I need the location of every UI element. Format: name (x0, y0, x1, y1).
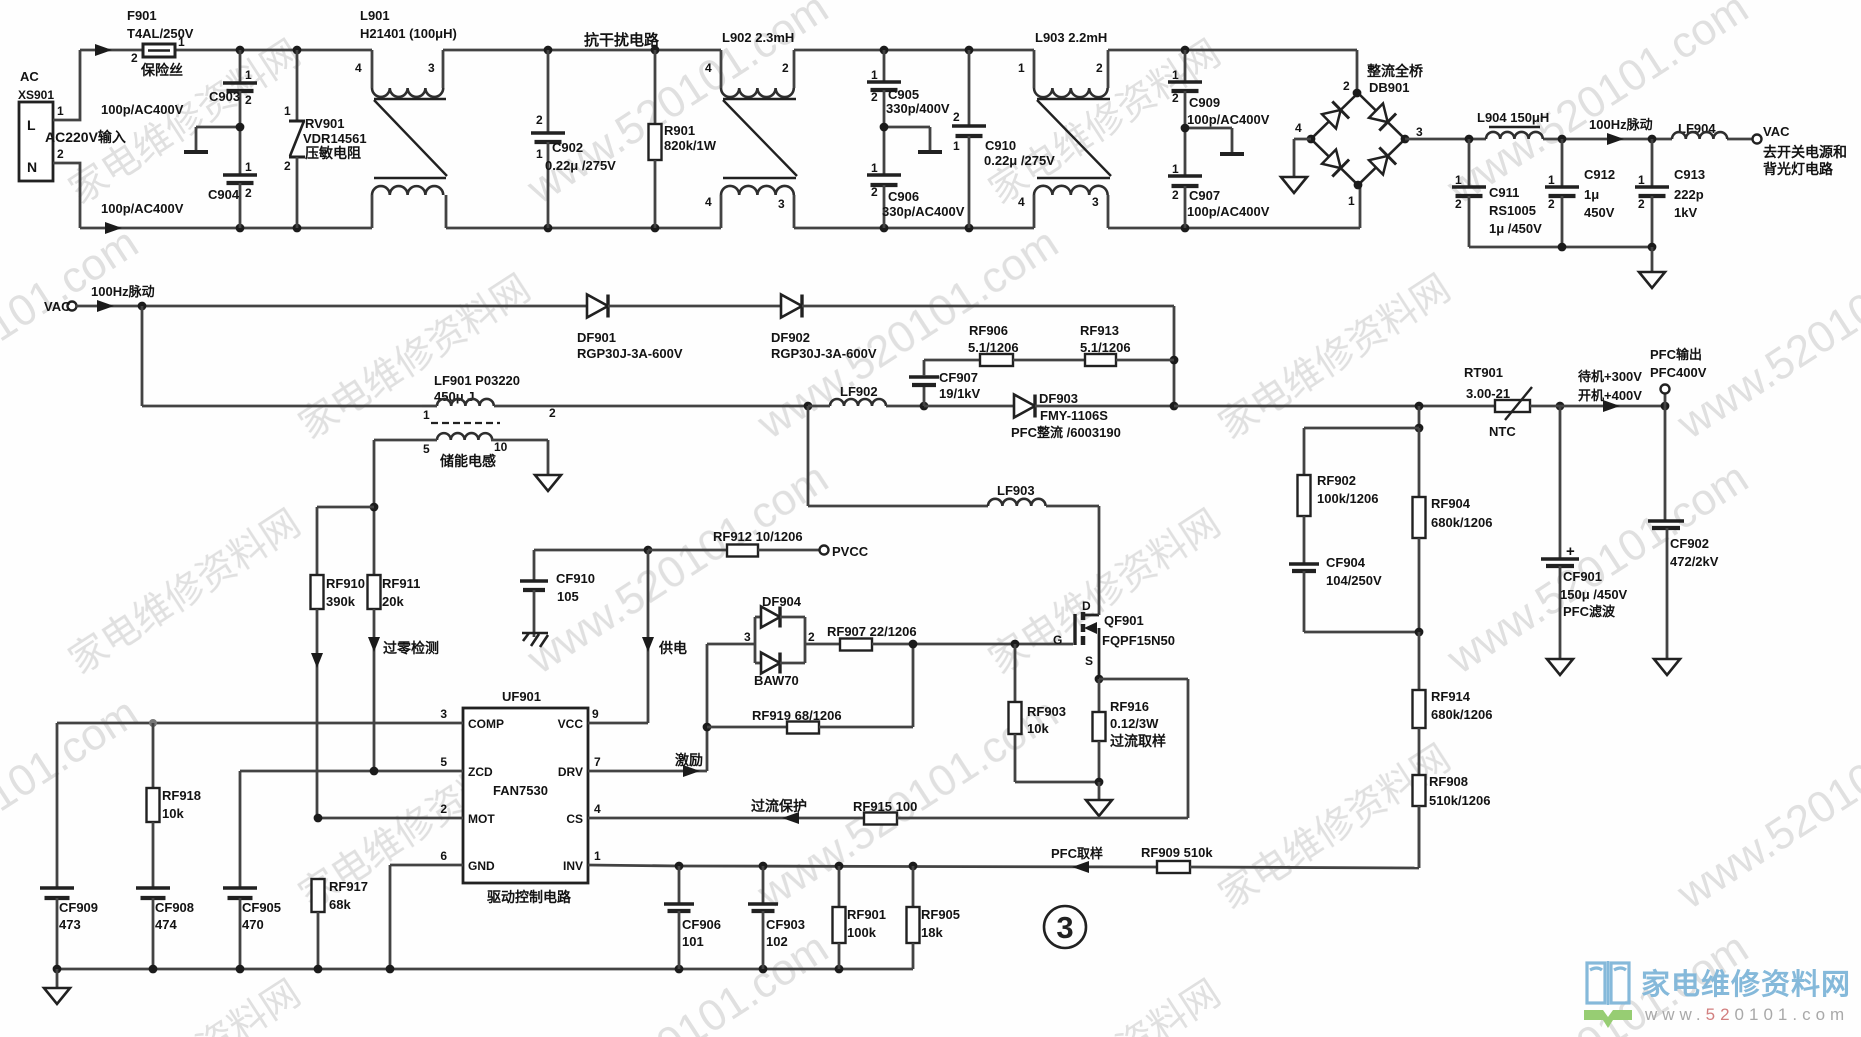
svg-text:1: 1 (1348, 194, 1355, 208)
svg-text:0.22μ /275V: 0.22μ /275V (984, 153, 1055, 168)
wire LF903 to QF901 drain (1098, 506, 1101, 614)
svg-text:102: 102 (766, 934, 788, 949)
capacitor CF908 (136, 888, 194, 969)
terminal VAC out (1753, 124, 1848, 177)
svg-text:F901: F901 (127, 8, 157, 23)
svg-text:待机+300V: 待机+300V (1577, 369, 1642, 384)
svg-text:CF909: CF909 (59, 900, 98, 915)
svg-text:5: 5 (423, 442, 430, 456)
diode DF903 (PFC rectifier) (924, 391, 1178, 440)
svg-text:820k/1W: 820k/1W (664, 138, 717, 153)
capacitor C911 (1452, 139, 1542, 247)
svg-text:LF901 P03220: LF901 P03220 (434, 373, 520, 388)
svg-text:2: 2 (536, 113, 543, 127)
wire GND net (pin6) (390, 865, 463, 969)
svg-text:RF905: RF905 (921, 907, 960, 922)
svg-text:1μ /450V: 1μ /450V (1489, 221, 1542, 236)
svg-text:1: 1 (871, 68, 878, 82)
wire RT901 to PFC output terminal (1530, 393, 1669, 412)
svg-text:2: 2 (245, 186, 252, 200)
resistor RF917 (312, 879, 369, 969)
common-mode choke L902 (705, 30, 797, 228)
wire XS901 pin2 to bottom rail (53, 163, 80, 228)
resistor RF902 (1298, 428, 1379, 563)
svg-text:抗干扰电路: 抗干扰电路 (584, 31, 660, 49)
resistor RF910 (311, 575, 366, 818)
inductor L904 (1477, 110, 1549, 139)
wire VAC down to PFC line (142, 306, 422, 406)
svg-text:3: 3 (744, 630, 751, 644)
label supply (658, 640, 687, 656)
svg-text:保险丝: 保险丝 (140, 62, 183, 78)
svg-text:2: 2 (1172, 188, 1179, 202)
svg-text:1: 1 (57, 104, 64, 118)
wire LF901 pin2 to LF902 (548, 402, 812, 411)
svg-text:CF901: CF901 (1563, 569, 1602, 584)
svg-text:L: L (27, 117, 36, 133)
svg-text:GND: GND (468, 859, 495, 873)
svg-text:3: 3 (1092, 195, 1099, 209)
svg-text:DF904: DF904 (762, 594, 802, 609)
svg-text:AC220V输入: AC220V输入 (45, 129, 126, 145)
svg-text:RGP30J-3A-600V: RGP30J-3A-600V (771, 346, 877, 361)
svg-text:680k/1206: 680k/1206 (1431, 707, 1492, 722)
svg-text:101: 101 (682, 934, 704, 949)
svg-text:DB901: DB901 (1369, 80, 1409, 95)
bridge rectifier DB901 (1295, 63, 1424, 208)
svg-text:PFC整流 /6003190: PFC整流 /6003190 (1011, 425, 1121, 440)
resistor RF913 (1080, 323, 1174, 366)
svg-text:C906: C906 (888, 189, 919, 204)
svg-text:RF918: RF918 (162, 788, 201, 803)
label AC220V input (45, 129, 126, 145)
wire XS901 pin1 to top rail (53, 50, 80, 120)
svg-text:PFC400V: PFC400V (1650, 365, 1707, 380)
svg-text:FQPF15N50: FQPF15N50 (1102, 633, 1175, 648)
svg-text:RF903: RF903 (1027, 704, 1066, 719)
svg-text:去开关电源和: 去开关电源和 (1763, 144, 1847, 160)
resistor RF918 (147, 723, 202, 887)
svg-text:供电: 供电 (658, 640, 687, 656)
svg-text:2: 2 (284, 159, 291, 173)
svg-text:CS: CS (566, 812, 583, 826)
svg-text:5.1/1206: 5.1/1206 (1080, 340, 1131, 355)
svg-text:N: N (27, 159, 37, 175)
svg-text:驱动控制电路: 驱动控制电路 (487, 889, 572, 905)
resistor RF906 (924, 323, 1085, 366)
svg-text:1: 1 (1548, 173, 1555, 187)
svg-text:3: 3 (778, 197, 785, 211)
svg-text:RF909 510k: RF909 510k (1141, 845, 1213, 860)
svg-text:www.520101.com: www.520101.com (1644, 1005, 1849, 1024)
ground (C903/C904 midpoint) (184, 127, 240, 152)
capacitor C903 (101, 50, 257, 127)
ground (CF902) (1654, 659, 1680, 675)
resistor RF916 (current sense) (1093, 679, 1167, 799)
svg-text:510k/1206: 510k/1206 (1429, 793, 1490, 808)
svg-text:2: 2 (57, 147, 64, 161)
svg-text:C904: C904 (208, 187, 240, 202)
svg-text:2: 2 (782, 61, 789, 75)
svg-text:2: 2 (1096, 61, 1103, 75)
svg-text:4: 4 (1018, 195, 1025, 209)
svg-text:100p/AC400V: 100p/AC400V (1187, 204, 1270, 219)
wire filter ground rail (1469, 243, 1656, 271)
svg-text:2: 2 (1455, 197, 1462, 211)
svg-text:C909: C909 (1189, 95, 1220, 110)
svg-text:1: 1 (423, 408, 430, 422)
svg-text:100k: 100k (847, 925, 877, 940)
svg-text:4: 4 (355, 61, 362, 75)
svg-text:QF901: QF901 (1104, 613, 1144, 628)
terminal PVCC (820, 544, 869, 559)
svg-text:2: 2 (953, 110, 960, 124)
svg-text:1: 1 (536, 147, 543, 161)
svg-text:1kV: 1kV (1674, 205, 1697, 220)
common-mode choke L903 (1018, 30, 1111, 228)
label zero-cross detect (383, 640, 439, 656)
resistor RF914 (1413, 632, 1493, 775)
capacitor C907 (1168, 124, 1270, 228)
capacitor CF910 (520, 550, 648, 637)
svg-text:2: 2 (1638, 197, 1645, 211)
svg-text:家电维修资料网: 家电维修资料网 (1641, 967, 1851, 1001)
svg-text:222p: 222p (1674, 187, 1704, 202)
svg-text:105: 105 (557, 589, 579, 604)
svg-text:3.00-21: 3.00-21 (1466, 386, 1510, 401)
wire divider mid rail (1304, 628, 1423, 637)
svg-text:330p/AC400V: 330p/AC400V (882, 204, 965, 219)
svg-text:1: 1 (871, 161, 878, 175)
svg-text:整流全桥: 整流全桥 (1366, 63, 1424, 79)
varistor RV901 (284, 50, 367, 228)
svg-text:CF905: CF905 (242, 900, 281, 915)
resistor R901 (649, 50, 717, 228)
svg-text:2: 2 (808, 630, 815, 644)
svg-text:0.12/3W: 0.12/3W (1110, 716, 1159, 731)
resistor RF903 (1009, 644, 1100, 782)
svg-text:RF901: RF901 (847, 907, 886, 922)
svg-text:FMY-1106S: FMY-1106S (1040, 408, 1108, 423)
MOSFET QF901 (1053, 599, 1175, 679)
svg-text:1: 1 (245, 68, 252, 82)
svg-text:DF902: DF902 (771, 330, 810, 345)
ground (output filter) (1639, 272, 1665, 288)
svg-text:DRV: DRV (558, 765, 583, 779)
svg-text:MOT: MOT (468, 812, 495, 826)
svg-text:C912: C912 (1584, 167, 1615, 182)
svg-text:150μ /450V: 150μ /450V (1560, 587, 1628, 602)
svg-text:AC: AC (20, 69, 39, 84)
svg-text:0.22μ /275V: 0.22μ /275V (545, 158, 616, 173)
capacitor CF906 (664, 866, 721, 969)
svg-text:压敏电阻: 压敏电阻 (305, 145, 361, 161)
inductor LF902 (808, 384, 928, 410)
resistor RF905 (907, 866, 961, 969)
svg-text:RF912 10/1206: RF912 10/1206 (713, 529, 803, 544)
svg-text:CF908: CF908 (155, 900, 194, 915)
svg-text:390k: 390k (326, 594, 356, 609)
svg-text:LF903: LF903 (997, 483, 1035, 498)
wire PFC sense divider top (1304, 406, 1423, 432)
svg-text:7: 7 (594, 755, 601, 769)
svg-text:2: 2 (871, 185, 878, 199)
svg-text:DF903: DF903 (1039, 391, 1078, 406)
svg-text:18k: 18k (921, 925, 943, 940)
svg-text:1: 1 (1018, 61, 1025, 75)
svg-text:H21401 (100μH): H21401 (100μH) (360, 26, 457, 41)
svg-text:473: 473 (59, 917, 81, 932)
resistor RF904 (1413, 428, 1493, 632)
svg-text:RF906: RF906 (969, 323, 1008, 338)
svg-text:CF910: CF910 (556, 571, 595, 586)
svg-text:104/250V: 104/250V (1326, 573, 1382, 588)
label 100Hz pulse (top) (1589, 117, 1653, 132)
svg-text:10k: 10k (1027, 721, 1049, 736)
label driver control circuit (487, 889, 572, 905)
svg-text:D: D (1082, 599, 1091, 613)
svg-text:RF910: RF910 (326, 576, 365, 591)
svg-text:2: 2 (1548, 197, 1555, 211)
svg-text:3: 3 (428, 61, 435, 75)
svg-text:DF901: DF901 (577, 330, 616, 345)
svg-text:COMP: COMP (468, 717, 504, 731)
inductor LF901 secondary (energy storage winding) (374, 433, 548, 474)
capacitor CF904 (1289, 555, 1382, 632)
capacitor C902 (531, 50, 616, 228)
svg-text:L902 2.3mH: L902 2.3mH (722, 30, 794, 45)
resistor RF908 (1413, 774, 1491, 868)
svg-text:XS901: XS901 (18, 88, 54, 102)
svg-text:C905: C905 (888, 87, 919, 102)
wire CS net (pin4) overcurrent protect (588, 798, 1188, 825)
svg-text:2: 2 (549, 406, 556, 420)
svg-text:L903 2.2mH: L903 2.2mH (1035, 30, 1107, 45)
logo 520101.com (book icon and site name) (1584, 961, 1851, 1028)
wire bottom AC rail (80, 185, 1360, 234)
svg-text:RF914: RF914 (1431, 689, 1471, 704)
resistor RF901 (833, 866, 887, 969)
svg-text:CF904: CF904 (1326, 555, 1366, 570)
svg-text:100p/AC400V: 100p/AC400V (1187, 112, 1270, 127)
svg-text:6: 6 (440, 849, 447, 863)
svg-text:RS1005: RS1005 (1489, 203, 1536, 218)
IC UF901 FAN7530 (driver/control) (440, 689, 601, 883)
svg-text:RF908: RF908 (1429, 774, 1468, 789)
svg-text:1μ: 1μ (1584, 187, 1599, 202)
svg-text:100p/AC400V: 100p/AC400V (101, 201, 184, 216)
wire LF903 branch (808, 406, 988, 506)
svg-text:C902: C902 (552, 140, 583, 155)
svg-text:RF915 100: RF915 100 (853, 799, 917, 814)
svg-text:4: 4 (1295, 121, 1302, 135)
svg-text:C911: C911 (1489, 185, 1519, 200)
wire rectified output rail (1405, 133, 1752, 145)
ground (CF901) (1547, 659, 1573, 675)
capacitor C905 (867, 50, 950, 127)
svg-text:330p/400V: 330p/400V (886, 101, 950, 116)
svg-text:2: 2 (1343, 79, 1350, 93)
inductor LF901 primary (422, 373, 556, 423)
svg-text:4: 4 (594, 802, 601, 816)
wire DRV pin7 (gate drive) (588, 644, 711, 777)
svg-text:4: 4 (705, 195, 712, 209)
svg-text:100k/1206: 100k/1206 (1317, 491, 1378, 506)
resistor RF912 (644, 529, 820, 557)
capacitor CF907 (909, 360, 981, 406)
svg-text:RV901: RV901 (305, 116, 345, 131)
svg-text:1: 1 (1172, 68, 1179, 82)
capacitor C904 (101, 123, 257, 228)
dual diode DF904 (BAW70) (707, 594, 815, 688)
svg-text:472/2kV: 472/2kV (1670, 554, 1719, 569)
svg-text:RF916: RF916 (1110, 699, 1149, 714)
svg-text:5.1/1206: 5.1/1206 (968, 340, 1019, 355)
svg-text:过流保护: 过流保护 (751, 798, 807, 814)
svg-text:2: 2 (1172, 91, 1179, 105)
connector XS901 (AC input) (18, 69, 64, 181)
svg-text:100Hz脉动: 100Hz脉动 (91, 284, 155, 299)
inductor LF904 (1672, 121, 1727, 139)
ground (LF901 secondary) (535, 475, 561, 491)
svg-text:VDR14561: VDR14561 (303, 131, 367, 146)
svg-text:100p/AC400V: 100p/AC400V (101, 102, 184, 117)
svg-text:68k: 68k (329, 897, 351, 912)
svg-text:1: 1 (1172, 162, 1179, 176)
svg-text:VCC: VCC (558, 717, 584, 731)
capacitor CF902 (1648, 406, 1719, 658)
capacitor C912 (1545, 139, 1615, 247)
wire analog ground rail (53, 965, 913, 987)
svg-text:储能电感: 储能电感 (439, 453, 496, 469)
wire PFC node to RT901 (1174, 402, 1564, 411)
ground (bridge negative) (1281, 139, 1311, 193)
fuse F901 (127, 8, 194, 78)
svg-text:PFC输出: PFC输出 (1650, 347, 1702, 362)
wire zero-cross divider feed (317, 440, 378, 575)
svg-text:G: G (1053, 633, 1062, 647)
label drive (675, 752, 703, 768)
thermistor RT901 (NTC) (1464, 365, 1532, 439)
wire COMP net (pin3) (57, 719, 463, 887)
wire DF902 to PFC output node (802, 306, 1178, 406)
capacitor CF905 (223, 888, 281, 969)
label 100Hz pulse (middle) (91, 284, 155, 299)
terminal PFC output (1650, 347, 1707, 394)
svg-text:C907: C907 (1189, 188, 1220, 203)
wire VAC to DF901 (76, 300, 587, 312)
svg-text:RF917: RF917 (329, 879, 368, 894)
svg-text:BAW70: BAW70 (754, 673, 799, 688)
svg-text:1: 1 (284, 104, 291, 118)
svg-text:CF903: CF903 (766, 917, 805, 932)
svg-text:ZCD: ZCD (468, 765, 493, 779)
svg-text:L904 150μH: L904 150μH (1477, 110, 1549, 125)
chassis ground (CF910) (522, 633, 548, 647)
svg-text:10: 10 (494, 440, 508, 454)
wire VCC pin9 (588, 722, 648, 725)
svg-text:INV: INV (563, 859, 583, 873)
svg-text:CF906: CF906 (682, 917, 721, 932)
svg-text:L901: L901 (360, 8, 390, 23)
svg-text:2: 2 (131, 51, 138, 65)
svg-text:过流取样: 过流取样 (1110, 733, 1166, 749)
svg-text:1: 1 (1455, 173, 1462, 187)
svg-text:C903: C903 (209, 89, 240, 104)
capacitor CF909 (40, 888, 98, 969)
resistor RF907 (805, 624, 1073, 651)
svg-text:19/1kV: 19/1kV (939, 386, 981, 401)
svg-text:PFC取样: PFC取样 (1051, 846, 1103, 861)
svg-text:C910: C910 (985, 138, 1016, 153)
diode DF901 (577, 295, 683, 362)
svg-text:S: S (1085, 654, 1093, 668)
svg-text:20k: 20k (382, 594, 404, 609)
ground (QF901 source) (1086, 800, 1112, 816)
svg-text:RT901: RT901 (1464, 365, 1503, 380)
svg-text:RF902: RF902 (1317, 473, 1356, 488)
svg-text:3: 3 (1416, 125, 1423, 139)
svg-text:VAC: VAC (1763, 124, 1790, 139)
capacitor C909 (1168, 50, 1270, 128)
svg-text:2: 2 (871, 90, 878, 104)
inductor LF903 (988, 483, 1099, 506)
wire DF901 to DF902 (608, 305, 781, 308)
svg-text:450V: 450V (1584, 205, 1615, 220)
svg-text:10k: 10k (162, 806, 184, 821)
svg-text:C913: C913 (1674, 167, 1705, 182)
svg-text:RF907 22/1206: RF907 22/1206 (827, 624, 917, 639)
wire source node (1095, 675, 1188, 818)
wire ZCD net (pin5) (240, 767, 463, 887)
svg-text:1: 1 (953, 139, 960, 153)
svg-text:9: 9 (592, 707, 599, 721)
svg-text:1: 1 (1638, 173, 1645, 187)
svg-text:PVCC: PVCC (832, 544, 869, 559)
svg-text:1: 1 (594, 849, 601, 863)
svg-text:RF919 68/1206: RF919 68/1206 (752, 708, 842, 723)
svg-text:680k/1206: 680k/1206 (1431, 515, 1492, 530)
ground (C905/C906 midpoint) (884, 127, 942, 152)
svg-text:2: 2 (245, 93, 252, 107)
terminal VAC in (44, 299, 77, 314)
svg-text:NTC: NTC (1489, 424, 1516, 439)
svg-text:474: 474 (155, 917, 177, 932)
svg-text:VAC: VAC (44, 299, 71, 314)
common-mode choke L901 (355, 8, 457, 228)
ground (control section) (44, 988, 70, 1004)
capacitor C910 (952, 50, 1055, 228)
svg-text:UF901: UF901 (502, 689, 541, 704)
diode DF902 (771, 295, 877, 362)
svg-text:CF907: CF907 (939, 370, 978, 385)
svg-text:470: 470 (242, 917, 264, 932)
svg-text:5: 5 (440, 755, 447, 769)
svg-text:4: 4 (705, 61, 712, 75)
svg-text:3: 3 (440, 707, 447, 721)
wire VCC supply (642, 550, 654, 723)
svg-text:1: 1 (178, 35, 185, 49)
svg-text:1: 1 (245, 160, 252, 174)
svg-text:RF904: RF904 (1431, 496, 1471, 511)
svg-text:RF913: RF913 (1080, 323, 1119, 338)
wire top AC rail (80, 44, 1357, 93)
wire MOT net (pin2) (314, 814, 463, 823)
resistor RF919 (707, 645, 913, 734)
svg-text:FAN7530: FAN7530 (493, 783, 548, 798)
svg-text:开机+400V: 开机+400V (1578, 388, 1642, 403)
svg-text:RF911: RF911 (382, 576, 420, 591)
